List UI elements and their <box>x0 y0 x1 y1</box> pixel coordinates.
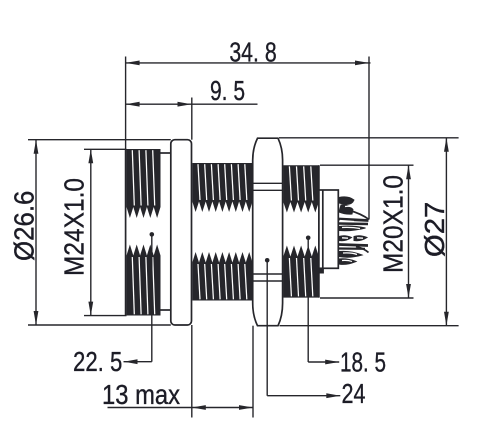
svg-text:M20X1.0: M20X1.0 <box>378 175 409 273</box>
dimension 13max extension lines <box>191 325 193 418</box>
hex face lines lower <box>253 273 283 275</box>
dimension 34.8 line <box>126 62 371 64</box>
left thread M24 top band <box>127 149 161 218</box>
hex nut outline <box>253 138 283 326</box>
middle thread top band <box>192 163 252 212</box>
dimension dia27 extension lines <box>279 137 459 139</box>
svg-text:22. 5: 22. 5 <box>73 346 122 377</box>
leader 22.5 lines <box>151 234 153 361</box>
leader 24 lines <box>266 260 268 395</box>
dimension 34.8 extension lines <box>125 57 127 150</box>
middle thread bottom band <box>192 252 252 301</box>
dimension 9.5 line <box>126 103 258 105</box>
svg-text:13 max: 13 max <box>102 379 180 410</box>
dimension dia27 line <box>445 138 447 326</box>
rear bottom nub <box>319 268 324 273</box>
extension line at flange right face (top) <box>191 98 193 140</box>
dimension M20X1.0 line <box>408 165 410 298</box>
svg-text:M24X1.0: M24X1.0 <box>59 178 90 276</box>
right thread top band <box>283 165 319 212</box>
flange <box>171 140 192 325</box>
leader 18.5 dot <box>306 236 311 241</box>
right thread bottom band <box>283 246 319 298</box>
thread root cylinder <box>161 152 171 154</box>
solder cup pins <box>339 197 369 265</box>
rear thread end face <box>318 165 320 297</box>
svg-text:34. 8: 34. 8 <box>229 37 276 68</box>
leader 18.5 lines <box>307 238 309 362</box>
leader 24 dot <box>265 258 270 263</box>
svg-text:9. 5: 9. 5 <box>210 75 245 106</box>
dimension M24X1.0 extension lines <box>84 148 127 150</box>
svg-text:Ø26.6: Ø26.6 <box>8 191 39 261</box>
svg-text:Ø27: Ø27 <box>419 202 450 257</box>
rear insulator body <box>319 190 338 268</box>
hex face lines upper <box>253 182 283 184</box>
leader 22.5 dot <box>150 232 155 237</box>
dimension dia26.6 extension lines <box>28 139 171 141</box>
wire: left thread end face <box>125 149 127 316</box>
dimension M20X1.0 extension lines <box>320 164 414 166</box>
dimension 13max line <box>108 407 254 409</box>
svg-text:18. 5: 18. 5 <box>340 347 386 378</box>
left thread M24 bottom band <box>127 245 161 316</box>
dimension M24X1.0 line <box>90 149 92 315</box>
dimension dia26.6 line <box>35 140 37 325</box>
svg-text:24: 24 <box>342 378 366 409</box>
